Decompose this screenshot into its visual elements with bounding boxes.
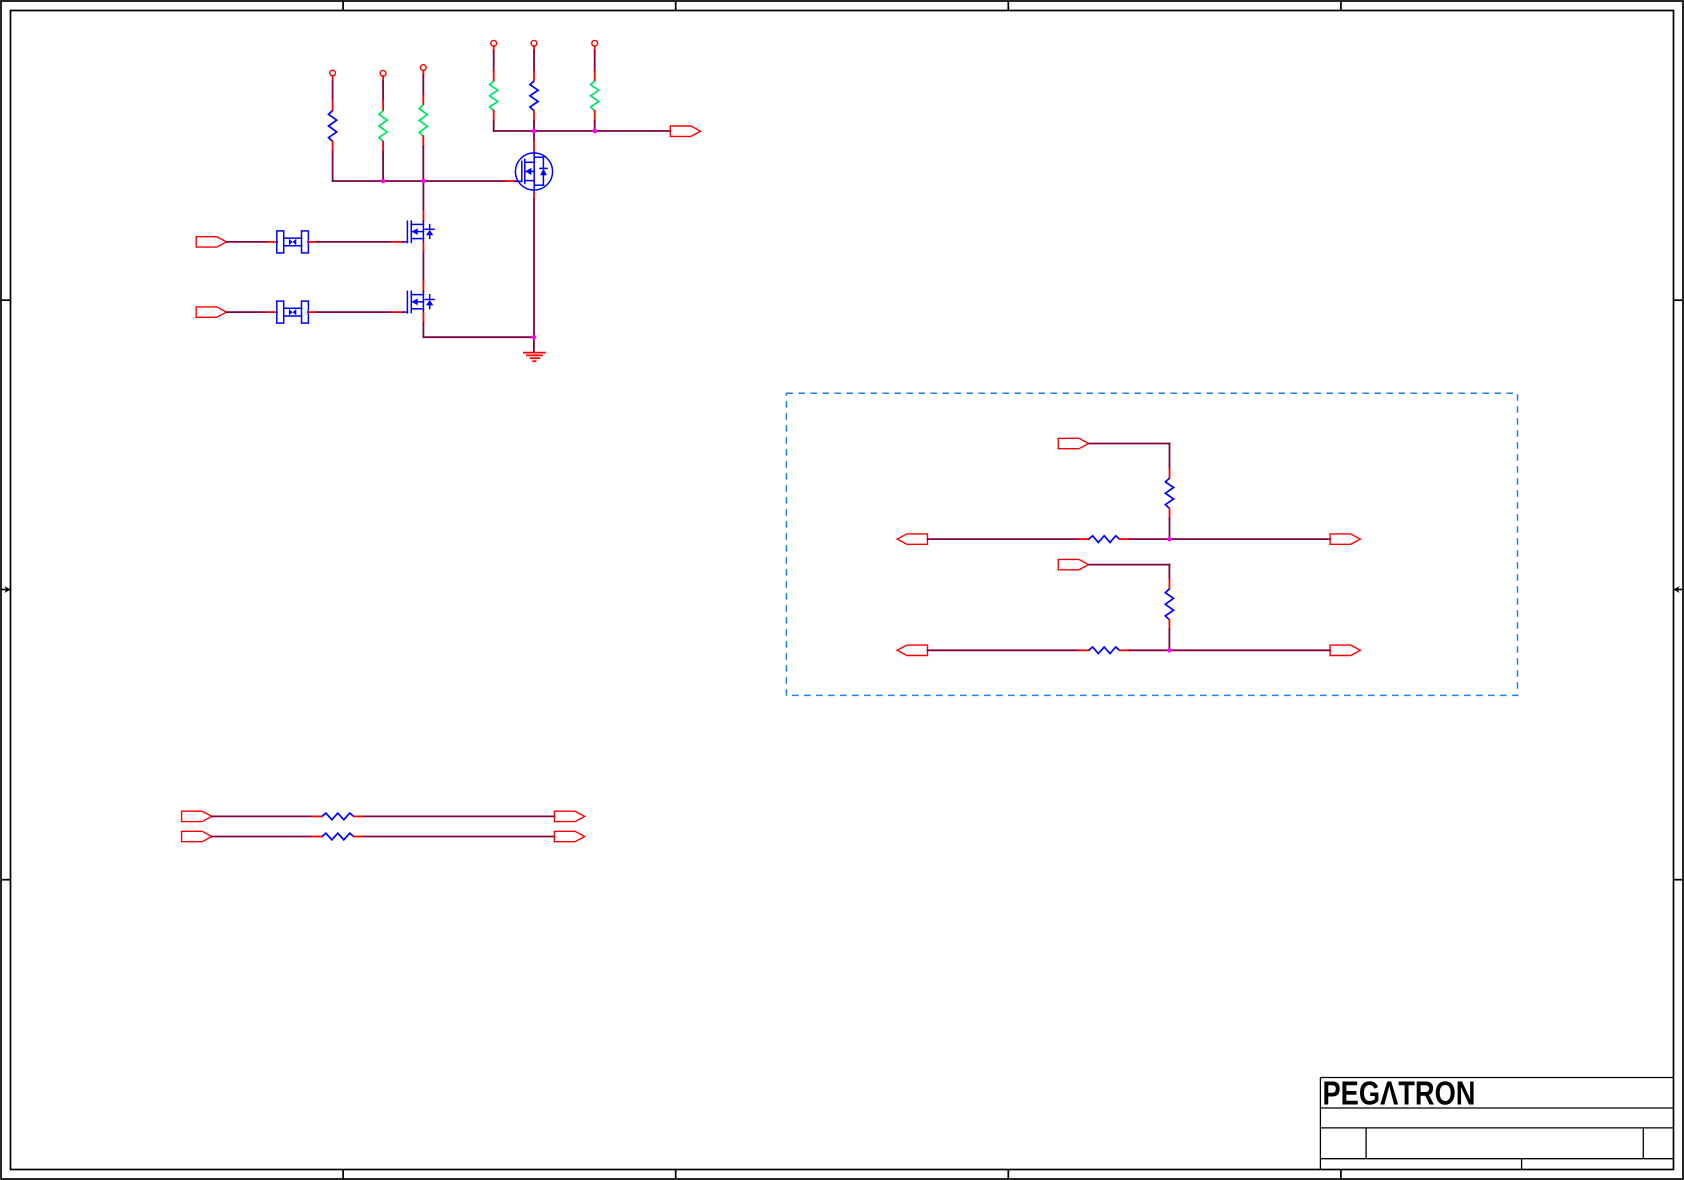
wire down to R7 [1169,444,1171,469]
pin stub R2 top [382,100,384,111]
wire down to R9 [1168,565,1170,580]
resistor R4 [490,81,498,111]
pin stub Q2 gate [392,241,403,243]
junction on gate bus at R3 [421,179,426,184]
pin stub R1 bottom [332,142,334,153]
pin lead P3 [422,71,424,76]
wire node to BR2 [1169,649,1330,651]
pin stub FB2 right [308,311,317,313]
pin lead P4 [493,46,495,51]
pin circle P3 [420,65,426,71]
wire BT1 right [1089,443,1170,445]
transistor Q3 (N-MOSFET) [403,291,434,313]
wire R1 to bus [332,152,334,181]
svg-text:PEGΛTRON: PEGΛTRON [1323,1075,1476,1112]
wire IN_B to bead FB2 [227,311,267,313]
port BT2 (box bottom input) [1058,559,1088,569]
wire R2 to bus [382,152,384,181]
pin stub R8 right [1120,538,1130,540]
resistor R5 [530,81,538,111]
wire bus down to Q1 drain [533,131,535,141]
wire drain bus [494,130,671,132]
wire node to BR1 [1170,538,1331,540]
wire IN_A to bead FB1 [227,241,267,243]
port SR1 (series line 1 right) [554,811,584,821]
pin stub R11 right [354,815,364,817]
resistor R10 [1089,647,1120,654]
junction node bottom [1167,648,1172,653]
ferrite bead FB2 [277,301,309,323]
pin stub Q2 source [422,242,424,252]
resistor R2 [379,111,387,142]
wire pin P6 to R6 [594,51,596,71]
pin stub R2 bottom [382,142,384,153]
resistor R3 [419,105,427,137]
wire pin P4 to R4 [493,51,495,71]
wire FB1 to Q2 gate [317,241,392,243]
pin stub Q1 gate [506,180,516,182]
wire Q2 source to Q3 drain [422,252,424,281]
wire SL1 to R11 [212,815,312,817]
pin stub R4 top [493,71,495,81]
pin stub R7 bottom [1169,508,1171,518]
wire R5 to drain bus [533,121,535,131]
wire SL2 to R12 [212,836,312,838]
wire R7 to node [1169,518,1171,539]
pin circle P4 [491,40,497,46]
pin stub R11 left [312,815,322,817]
ground symbol [524,353,545,362]
wire R11 to SR1 [364,815,555,817]
port SR2 (series line 2 right) [554,831,584,841]
wire pin P2 to R2 [382,81,384,100]
resistor R6 [591,81,599,111]
wire R9 to node [1168,629,1170,650]
pin stub R12 right [354,836,364,838]
wire R8 to node [1130,538,1170,540]
pin stub R8 left [1079,538,1089,540]
pin circle P5 [531,40,537,46]
pin stub R12 left [312,836,322,838]
transistor Q1 (N-MOSFET, circled) [515,152,552,192]
pin stub Q1 drain [533,141,535,152]
resistor R1 [329,111,337,142]
transistor Q2 (N-MOSFET) [403,221,434,243]
port BR2 (box right lower) [1330,645,1360,655]
resistor R9 [1165,589,1173,620]
dashed group box [786,393,1517,695]
wire to ground junction [423,336,534,338]
port IN_B (left input lower) [196,307,226,317]
wire R4 to drain bus [493,121,495,131]
pin stub R9 top [1168,579,1170,589]
junction on gate bus at R2 [381,179,386,184]
pin stub FB1 left [267,241,277,243]
pin circle P1 [330,70,336,76]
wire Q3 source down [422,322,424,337]
port BL1 (box left upper) [897,534,927,544]
junction node top [1167,537,1172,542]
port IN_A (left input upper) [196,237,226,247]
wire R6 to drain bus [594,121,596,131]
wire R3 to bus [422,146,424,181]
pin stub Q3 drain [422,281,424,291]
pin stub R5 bottom [533,111,535,121]
port OUT (right) [670,126,700,136]
port BT1 (box top input) [1058,438,1088,448]
port SL2 (series line 2 left) [182,831,212,841]
wire gate bus [333,180,506,182]
pin stub R1 top [332,100,334,111]
junction at ground node [532,335,537,340]
junction drain bus at R5 [532,129,537,134]
port BR1 (box right upper) [1330,534,1360,544]
pin stub R6 bottom [594,111,596,121]
pin lead P5 [533,46,535,51]
pin lead P2 [382,76,384,81]
resistor R12 [322,833,354,840]
pin lead P6 [594,46,596,51]
resistor R11 [322,813,354,820]
wire bus down to Q2 drain [422,181,424,211]
junction drain bus at R6 [592,129,597,134]
pin stub R3 top [422,96,424,105]
wire R12 to SR2 [364,836,555,838]
wire pin P1 to R1 [332,81,334,100]
pin circle P6 [592,40,598,46]
wire junction to ground [533,337,535,352]
pin stub Q2 drain [422,211,424,221]
resistor R7 [1165,478,1173,508]
title block [1320,1078,1673,1170]
wire BL1 to R8 [928,538,1079,540]
pin circle P2 [380,70,386,76]
pin stub FB2 left [267,311,277,313]
pin stub Q3 gate [392,311,403,313]
pin stub FB1 right [308,241,317,243]
resistor R8 [1089,536,1120,543]
wire BL2 to R10 [928,649,1079,651]
pin stub Q3 source [422,313,424,323]
wire BT2 right [1089,564,1170,566]
wire pin P3 to R3 [422,76,424,96]
pin stub R5 top [533,71,535,81]
ferrite bead FB1 [277,231,309,253]
pin stub R9 bottom [1168,620,1170,630]
pin lead P1 [332,76,334,81]
wire pin P5 to R5 [533,51,535,71]
pin stub R3 bottom [422,136,424,146]
port BL2 (box left lower) [897,645,927,655]
wire Q1 source down [533,200,535,338]
pin stub R10 right [1120,649,1130,651]
pin stub R7 top [1169,469,1171,479]
pin stub R4 bottom [493,111,495,121]
wire FB2 to Q3 gate [317,311,392,313]
pin stub Q1 source [533,192,535,200]
pin stub R10 left [1079,649,1089,651]
wire R10 to node [1130,649,1170,651]
port SL1 (series line 1 left) [182,811,212,821]
pin stub R6 top [594,71,596,81]
